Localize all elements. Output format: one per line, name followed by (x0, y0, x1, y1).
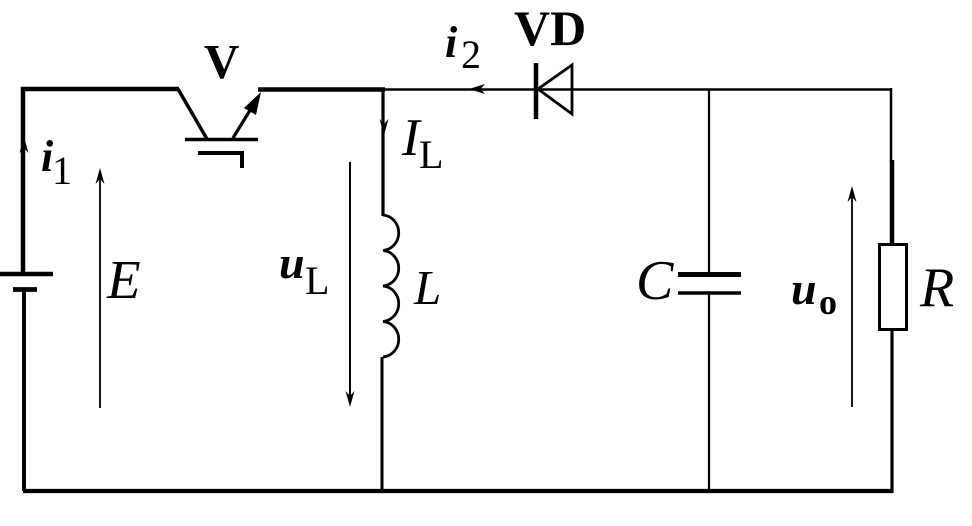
wire: bottom rail (23, 489, 894, 493)
svg-text:i: i (445, 18, 458, 67)
wire: capacitor branch lower (708, 294, 710, 491)
transistor V base bar (185, 138, 258, 142)
battery E positive long plate (0, 272, 53, 277)
wire: battery to bottom rail (22, 290, 26, 491)
svg-text:u: u (279, 237, 305, 288)
wire: right rail below resistor (890, 329, 893, 491)
wire: right rail above resistor (890, 160, 895, 245)
current arrow i2 on top rail (469, 84, 485, 94)
battery E negative short plate (13, 287, 37, 292)
wire: capacitor branch upper (708, 89, 710, 273)
svg-text:L: L (419, 132, 443, 177)
wire: top rail left segment (23, 89, 179, 274)
voltage arrow E (96, 168, 105, 408)
svg-text:2: 2 (461, 32, 481, 77)
svg-text:L: L (413, 260, 441, 315)
transistor V emitter arrowhead (244, 92, 261, 115)
current arrow I_L on inductor branch (380, 119, 389, 135)
capacitor C top plate (678, 272, 741, 277)
diode VD cathode bar (534, 63, 539, 119)
inductor L coil (383, 215, 399, 357)
svg-text:E: E (106, 249, 141, 310)
transistor V emitter lead (233, 107, 252, 138)
wire: inductor branch upper (381, 89, 384, 216)
svg-text:VD: VD (514, 0, 586, 56)
capacitor C bottom plate (678, 291, 741, 295)
diode VD triangle (538, 65, 572, 114)
svg-text:1: 1 (52, 148, 72, 193)
svg-text:L: L (305, 258, 329, 303)
voltage arrow u_L (downward) (346, 162, 355, 407)
transistor V collector lead (178, 89, 207, 139)
resistor R body (880, 245, 907, 330)
wire: inductor branch lower (381, 357, 384, 491)
voltage arrow u_o (upward) (848, 186, 857, 407)
wire: right rail upper (890, 88, 893, 162)
svg-text:o: o (819, 282, 837, 322)
transistor V base terminal lead (198, 153, 242, 168)
svg-text:u: u (791, 263, 817, 314)
svg-text:R: R (919, 257, 954, 319)
svg-text:V: V (204, 34, 239, 89)
current arrow i1 on left rail (20, 137, 29, 153)
wire: top rail from transistor to inductor node (258, 87, 385, 92)
svg-text:C: C (636, 250, 674, 312)
wire: top rail thin from inductor node to right corner (383, 88, 891, 90)
